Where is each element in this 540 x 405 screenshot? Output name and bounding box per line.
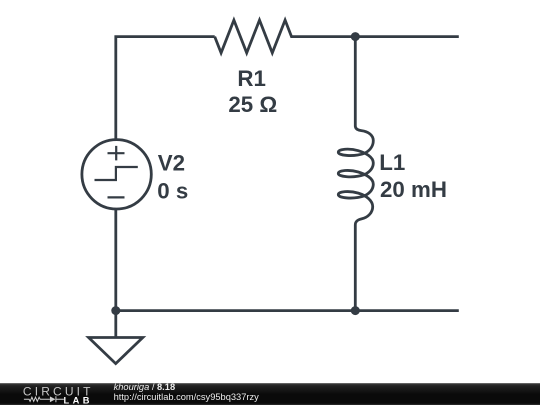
svg-text:25 Ω: 25 Ω: [228, 92, 277, 117]
svg-text:L1: L1: [379, 150, 405, 175]
svg-text:khouriga / 8.18: khouriga / 8.18: [114, 382, 176, 392]
svg-text:20 mH: 20 mH: [380, 177, 447, 202]
svg-text:V2: V2: [158, 150, 185, 175]
svg-text:0 s: 0 s: [157, 179, 188, 204]
svg-text:R1: R1: [237, 66, 266, 91]
svg-text:LAB: LAB: [64, 395, 93, 405]
svg-text:http://circuitlab.com/csy95bq3: http://circuitlab.com/csy95bq337rzy: [114, 392, 260, 402]
